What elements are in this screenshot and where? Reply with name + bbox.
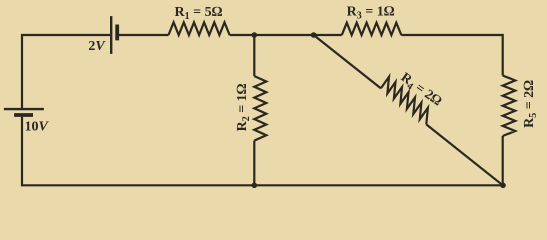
node B junction dot top: [311, 32, 317, 38]
node A junction dot top: [252, 32, 258, 38]
resistor R1: [169, 22, 230, 35]
wire diagonal from node B to resistor R4: [314, 35, 381, 88]
wire from R2 down to bottom node: [253, 141, 255, 186]
resistor R2: [254, 76, 266, 141]
junction dot bottom middle: [252, 183, 258, 189]
svg-text:R1 = 5Ω: R1 = 5Ω: [174, 5, 222, 22]
wire from node A down to resistor R2: [253, 35, 255, 76]
svg-text:R2 = 1Ω: R2 = 1Ω: [235, 83, 252, 131]
wire from R3 to top-right corner, down to R5: [401, 35, 502, 76]
svg-text:10V: 10V: [25, 119, 50, 134]
resistor R5: [503, 76, 516, 137]
wire from R1 across node A to node B: [230, 34, 342, 36]
wire from battery 2V to resistor R1: [119, 34, 169, 36]
battery V1 2V long plate: [110, 16, 112, 54]
battery V2 10V long plate: [4, 108, 44, 110]
resistor R3: [342, 23, 402, 35]
svg-text:2V: 2V: [88, 39, 106, 54]
wire top-left: battery 2V to top-left corner, down to battery 10V: [22, 35, 110, 109]
wire bottom-right: node C to bottom-right corner, up to R5: [254, 136, 502, 185]
wire diagonal from R4 to bottom-right corner: [426, 124, 503, 185]
battery V2 10V short thick plate: [14, 113, 33, 117]
svg-text:R5 = 2Ω: R5 = 2Ω: [522, 80, 539, 128]
battery V1 2V short thick plate: [115, 25, 119, 41]
resistor R4: [381, 77, 428, 125]
svg-text:R3 = 1Ω: R3 = 1Ω: [347, 5, 395, 22]
junction dot bottom right: [500, 183, 506, 189]
wire bottom-left: battery 10V down to bottom-left corner, right to node C: [22, 117, 254, 186]
